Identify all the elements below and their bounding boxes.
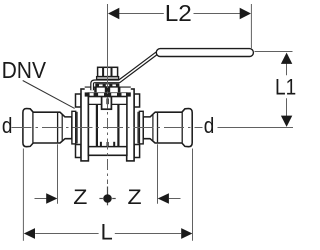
plate divider right <box>118 87 121 92</box>
stem boss <box>102 97 112 110</box>
L2 left arrow <box>108 8 119 19</box>
horizontal centerline right part <box>218 127 294 129</box>
ball bottom line right <box>113 142 115 147</box>
L2 dimension line right segment <box>194 13 241 15</box>
gland dark row <box>95 83 119 87</box>
L dimension line left segment <box>35 233 98 235</box>
right top bolt head <box>134 94 140 107</box>
L2 right extension line <box>250 4 252 48</box>
svg-text:L2: L2 <box>165 1 192 27</box>
left bead inner line <box>32 112 34 142</box>
right bead inner line <box>181 112 183 142</box>
right pipe stop line <box>157 113 159 143</box>
bonnet dark band <box>85 92 131 96</box>
nut facet right <box>111 68 113 76</box>
L1 dimension line lower <box>286 98 288 116</box>
L left arrow <box>24 228 35 239</box>
vertical centerline bottom solid <box>107 187 109 206</box>
band slit 2 <box>98 93 104 96</box>
L1 up arrow <box>281 53 292 64</box>
right taper line <box>152 114 154 140</box>
left press fitting silhouette <box>23 109 72 147</box>
band slit 1 <box>90 93 94 96</box>
vertical centerline top solid <box>107 4 109 77</box>
gland slit 1 <box>99 84 103 86</box>
Z left extension line <box>57 144 59 204</box>
right bottom bolt head <box>134 145 140 158</box>
valve body <box>88 97 127 156</box>
center dot stub right <box>112 198 116 200</box>
left bottom bolt head <box>76 145 82 158</box>
L1 down arrow <box>281 116 292 127</box>
svg-text:L1: L1 <box>275 75 296 100</box>
Z right arrow <box>158 193 169 203</box>
left pipe stop line <box>57 113 59 143</box>
Z dimension line right <box>169 198 181 200</box>
gland slit 2 <box>106 84 109 86</box>
right flange <box>127 89 134 161</box>
stem plate white row <box>85 87 131 92</box>
svg-text:L: L <box>101 220 113 245</box>
L2 dimension line left segment <box>119 13 164 15</box>
right press fitting silhouette <box>143 109 192 147</box>
band slit 4 <box>122 93 127 96</box>
gland slit 3 <box>112 84 116 86</box>
stem slot <box>106 98 108 104</box>
band slit 3 <box>111 93 117 96</box>
stem nut <box>98 67 118 76</box>
Z dimension line left <box>35 198 47 200</box>
left union ring <box>72 111 76 144</box>
left taper line <box>61 114 63 140</box>
plate divider center <box>105 87 110 92</box>
left flange <box>81 89 88 161</box>
Z right extension line <box>157 144 159 204</box>
svg-text:d: d <box>2 115 13 138</box>
L1 top extension line <box>255 51 293 53</box>
right union ring <box>139 111 143 144</box>
nut facet left <box>102 68 104 76</box>
left top bolt head <box>76 94 82 107</box>
plate divider left <box>94 87 97 92</box>
horizontal centerline left part <box>12 127 203 129</box>
center bottom tick <box>107 142 109 147</box>
svg-text:d: d <box>204 115 215 138</box>
svg-text:DNV: DNV <box>2 57 47 83</box>
L2 right arrow <box>240 8 251 19</box>
L dimension line right segment <box>115 233 181 235</box>
body lower line <box>88 146 127 148</box>
stem washer <box>97 77 119 80</box>
stem plate top line <box>85 86 131 88</box>
right ring edge line <box>137 112 139 144</box>
right seat line <box>117 104 119 146</box>
ball bottom line left <box>100 142 102 147</box>
left ring edge line <box>76 112 78 144</box>
Z left arrow <box>46 193 57 203</box>
handle grip capsule <box>156 49 253 57</box>
vertical centerline dash-dot <box>107 77 109 184</box>
body mid line <box>88 103 127 105</box>
L right arrow <box>181 228 192 239</box>
DNV leader line <box>23 81 75 109</box>
L1 dimension line upper <box>286 64 288 76</box>
L left extension line <box>22 149 24 241</box>
svg-text:Z: Z <box>73 185 87 209</box>
handle lever strip <box>92 52 158 90</box>
center dot <box>103 194 112 203</box>
center dot stub left <box>99 198 103 200</box>
L right extension line <box>192 149 194 241</box>
svg-text:Z: Z <box>128 185 142 209</box>
left seat line <box>96 104 98 146</box>
